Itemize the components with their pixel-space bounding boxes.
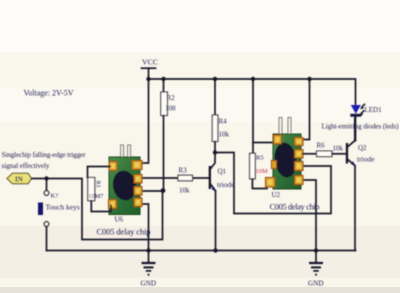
svg-text:Q2: Q2: [358, 144, 367, 152]
svg-text:Singlechip falling-edge trigge: Singlechip falling-edge trigger: [2, 151, 87, 159]
svg-text:K?: K?: [51, 193, 59, 200]
svg-text:U6: U6: [115, 216, 124, 224]
svg-text:signal effectively: signal effectively: [2, 162, 50, 170]
svg-text:VCC: VCC: [142, 58, 158, 67]
svg-text:R2: R2: [167, 94, 176, 102]
svg-text:IN: IN: [15, 176, 23, 184]
svg-text:R4: R4: [219, 118, 228, 126]
svg-text:GND: GND: [308, 280, 324, 288]
svg-text:10M7: 10M7: [89, 193, 104, 200]
svg-text:U2: U2: [272, 191, 281, 199]
svg-text:C005 delay chip: C005 delay chip: [270, 202, 320, 212]
svg-text:C005 delay chip: C005 delay chip: [97, 227, 151, 237]
svg-text:Light-emitting diodes (leds): Light-emitting diodes (leds): [322, 123, 400, 131]
svg-text:R3: R3: [179, 167, 188, 175]
svg-text:Voltage: 2V-5V: Voltage: 2V-5V: [24, 89, 74, 98]
svg-text:R5: R5: [256, 155, 264, 162]
svg-text:10k: 10k: [219, 131, 230, 139]
svg-text:Touch keys: Touch keys: [46, 203, 80, 212]
svg-text:10k: 10k: [179, 187, 190, 195]
svg-text:R1: R1: [95, 181, 102, 188]
svg-text:triode: triode: [357, 155, 375, 164]
svg-text:10M: 10M: [256, 168, 269, 175]
svg-text:LED1: LED1: [365, 106, 383, 114]
svg-text:R6: R6: [317, 142, 326, 150]
svg-text:GND: GND: [141, 280, 157, 288]
svg-text:Q1: Q1: [218, 168, 227, 176]
svg-text:10k: 10k: [333, 145, 344, 153]
svg-text:108: 108: [165, 105, 176, 113]
svg-text:triode: triode: [217, 180, 235, 189]
